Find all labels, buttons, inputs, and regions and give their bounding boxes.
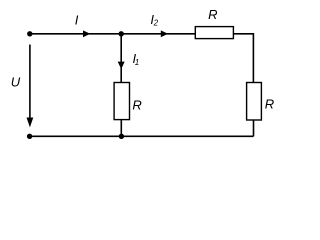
svg-text:I: I [75,12,79,27]
svg-text:R: R [208,7,217,22]
resistor R3 (right vertical) [247,83,262,121]
resistor R2 (middle vertical) [114,83,129,120]
node bottom-left terminal [27,134,32,139]
svg-text:1: 1 [135,58,139,67]
wire bottom rail [30,135,254,137]
wire top from source plus terminal to R1 [30,33,196,35]
svg-text:R: R [265,96,274,111]
svg-text:R: R [132,98,141,113]
wire R1 to right corner and down [233,34,253,83]
voltage arrow U [29,45,31,120]
wire R2 bottom to bottom rail [120,120,122,137]
current arrow I1 [118,62,125,70]
wire R3 bottom to bottom rail [253,120,255,136]
current arrow I2 [161,30,168,37]
node junction A top [119,31,124,36]
svg-text:U: U [11,74,21,89]
wire middle branch down [120,34,122,83]
node junction B bottom [119,134,124,139]
node top-left terminal [27,31,32,36]
current arrow I [83,30,90,37]
svg-text:2: 2 [153,19,159,28]
resistor R1 (horizontal) [195,27,233,39]
